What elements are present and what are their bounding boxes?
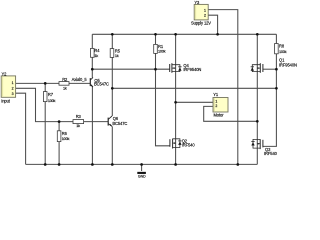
svg-text:IRF9540N: IRF9540N bbox=[183, 67, 201, 72]
svg-text:1: 1 bbox=[204, 8, 206, 12]
svg-text:2: 2 bbox=[215, 104, 217, 108]
svg-text:100k: 100k bbox=[279, 49, 287, 54]
svg-text:1k: 1k bbox=[63, 85, 67, 90]
svg-text:Motor: Motor bbox=[214, 113, 225, 118]
svg-text:Y2: Y2 bbox=[2, 71, 8, 76]
svg-text:BC547C: BC547C bbox=[94, 82, 109, 87]
svg-text:2: 2 bbox=[12, 86, 14, 90]
svg-text:R3: R3 bbox=[76, 114, 82, 119]
svg-text:3: 3 bbox=[12, 92, 14, 96]
svg-text:1: 1 bbox=[215, 100, 217, 104]
svg-text:BC547C: BC547C bbox=[112, 121, 127, 126]
svg-text:R8: R8 bbox=[279, 43, 285, 48]
svg-text:IRF9540N: IRF9540N bbox=[279, 62, 297, 67]
svg-text:1k: 1k bbox=[115, 53, 119, 58]
svg-text:GND: GND bbox=[138, 175, 146, 179]
svg-text:2: 2 bbox=[204, 13, 206, 17]
svg-text:1: 1 bbox=[12, 81, 14, 85]
svg-text:1k: 1k bbox=[76, 123, 80, 128]
svg-text:Supply 12V: Supply 12V bbox=[191, 21, 211, 26]
svg-text:Axial0_5: Axial0_5 bbox=[72, 77, 88, 82]
svg-text:IRF540: IRF540 bbox=[182, 143, 196, 148]
svg-text:IRF540: IRF540 bbox=[264, 151, 278, 156]
svg-text:Y1: Y1 bbox=[213, 92, 219, 97]
svg-text:R7: R7 bbox=[48, 92, 54, 97]
svg-text:100k: 100k bbox=[62, 136, 70, 141]
svg-text:100k: 100k bbox=[158, 48, 166, 53]
svg-text:Y3: Y3 bbox=[194, 0, 200, 5]
svg-text:130k: 130k bbox=[48, 98, 56, 103]
svg-text:Input: Input bbox=[1, 99, 11, 104]
svg-text:R2: R2 bbox=[62, 77, 68, 82]
svg-text:1k: 1k bbox=[94, 53, 98, 58]
